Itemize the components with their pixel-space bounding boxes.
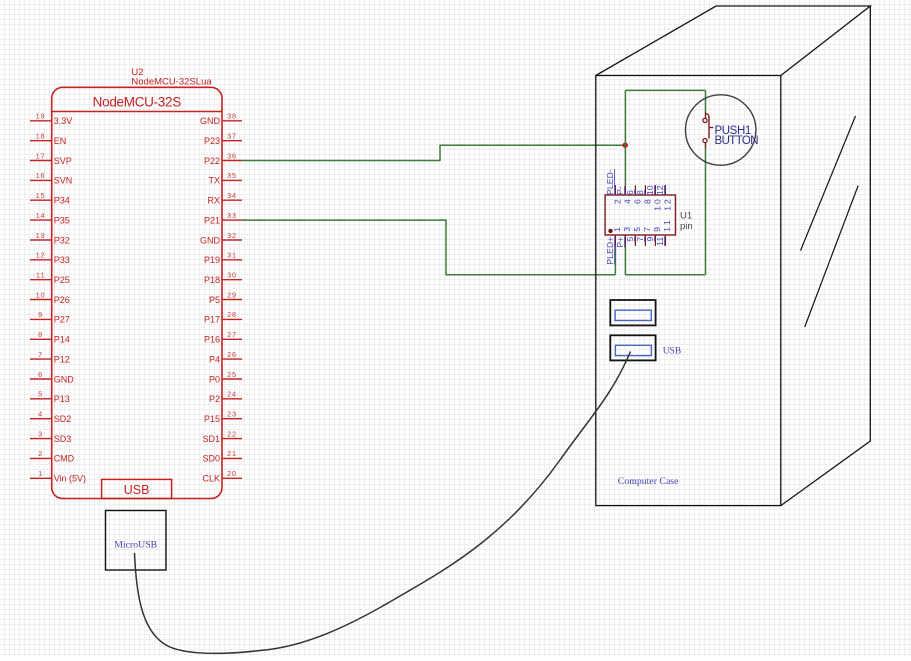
U2 pin 26 (P4) right	[209, 350, 242, 365]
svg-text:P13: P13	[54, 394, 70, 404]
U1 pin 3 stub bottom	[624, 235, 626, 246]
svg-text:12: 12	[662, 199, 672, 211]
svg-text:1: 1	[612, 227, 622, 232]
svg-text:3: 3	[622, 227, 632, 232]
U2 pin 38 (GND) right	[200, 112, 242, 127]
svg-text:CMD: CMD	[54, 454, 75, 464]
svg-text:27: 27	[227, 330, 237, 339]
svg-text:10: 10	[652, 199, 662, 211]
U2 pin 15 (P34) left	[30, 191, 70, 206]
U2 pin 12 (P33) left	[30, 251, 70, 266]
case shine line 2	[805, 186, 859, 328]
svg-text:P23: P23	[204, 136, 220, 146]
svg-text:18: 18	[36, 132, 46, 141]
svg-text:11: 11	[36, 271, 45, 280]
U2 pin 35 (TX) right	[208, 171, 242, 186]
svg-text:P18: P18	[204, 275, 220, 285]
svg-text:11: 11	[655, 236, 665, 245]
U2 pin 33 (P21) right	[204, 211, 242, 226]
push button labels PUSH1 BUTTON	[715, 125, 759, 147]
svg-text:P25: P25	[54, 275, 70, 285]
U2 pin 20 (CLK) right	[202, 469, 242, 484]
svg-text:RX: RX	[207, 196, 220, 206]
svg-text:P+: P+	[615, 237, 625, 248]
svg-text:8: 8	[38, 330, 43, 339]
U1 pin 12 stub top	[664, 185, 666, 195]
wire P- net: top horizontal to push button	[625, 89, 705, 91]
svg-text:12: 12	[655, 185, 665, 195]
wire to push button top	[705, 90, 707, 112]
U2 pin 30 (P18) right	[204, 271, 242, 286]
svg-text:PLED-: PLED-	[605, 169, 615, 195]
svg-text:9: 9	[38, 310, 43, 319]
svg-text:22: 22	[227, 429, 237, 438]
svg-text:29: 29	[227, 290, 237, 299]
U2 pin 21 (SD0) right	[202, 449, 242, 464]
computer case top face	[596, 6, 871, 76]
svg-text:5: 5	[625, 236, 635, 241]
net label 11	[655, 236, 665, 245]
USB port 1 outer	[610, 300, 655, 325]
U1 pin 11 stub bottom	[664, 235, 666, 246]
USB label	[663, 346, 681, 356]
U2 pin 36 (P22) right	[204, 151, 242, 166]
svg-text:7: 7	[635, 236, 645, 241]
U1 pin 6 stub top	[634, 185, 636, 195]
svg-text:SVN: SVN	[54, 176, 73, 186]
U2 pin 23 (P15) right	[204, 410, 242, 425]
U1 pin 8 stub top	[644, 185, 646, 195]
U2 pin 22 (SD1) right	[202, 429, 242, 444]
IC U2 NodeMCU-32S body	[52, 87, 222, 498]
svg-text:23: 23	[227, 410, 237, 419]
svg-text:21: 21	[227, 449, 237, 458]
U1 pin 4 stub top	[624, 185, 626, 195]
svg-text:P22: P22	[204, 156, 220, 166]
U2 pin 3 (SD3) left	[30, 429, 71, 444]
svg-text:4: 4	[38, 410, 43, 419]
svg-text:USB: USB	[663, 346, 681, 356]
U2 pin 1 (Vin (5V)) left	[30, 469, 86, 484]
svg-text:P33: P33	[54, 255, 70, 265]
U2 pin 9 (P27) left	[30, 310, 70, 325]
svg-text:USB: USB	[124, 483, 150, 497]
svg-text:GND: GND	[54, 374, 74, 384]
USB port 2 inner	[615, 345, 651, 355]
U2 pin 10 (P26) left	[30, 290, 70, 305]
U1 pin number 1	[612, 227, 622, 232]
svg-text:3: 3	[38, 429, 43, 438]
net label PLED+	[605, 237, 615, 265]
U1 pin 1 stub bottom	[614, 235, 616, 246]
U2 pin 13 (P32) left	[30, 231, 70, 246]
svg-text:25: 25	[227, 370, 237, 379]
svg-text:37: 37	[227, 132, 237, 141]
svg-text:34: 34	[227, 191, 237, 200]
junction dot on P- net	[623, 143, 628, 148]
U2 pin 2 (CMD) left	[30, 449, 75, 464]
svg-text:4: 4	[622, 199, 632, 204]
svg-text:MicroUSB: MicroUSB	[114, 540, 157, 551]
svg-text:24: 24	[227, 390, 237, 399]
net label P-	[615, 186, 625, 195]
U2 pin 37 (P23) right	[204, 132, 242, 147]
U1 pin 5 stub bottom	[634, 235, 636, 246]
wire P+ to header pin 3	[624, 246, 626, 275]
Computer Case label	[618, 476, 679, 487]
case shine line 1	[801, 116, 856, 251]
U1 pin number 7	[642, 227, 652, 232]
net label 5	[625, 236, 635, 241]
svg-text:26: 26	[227, 350, 237, 359]
U2 pin 6 (GND) left	[30, 370, 74, 385]
zoom circle around push button	[686, 95, 756, 165]
svg-text:SD1: SD1	[202, 434, 220, 444]
svg-text:13: 13	[36, 231, 46, 240]
svg-text:19: 19	[36, 112, 46, 121]
svg-text:35: 35	[227, 171, 237, 180]
svg-text:Vin (5V): Vin (5V)	[54, 474, 86, 484]
U2 pin 32 (GND) right	[200, 231, 242, 246]
wire P+ net bottom horizontal	[625, 274, 705, 276]
U2 USB connector label box	[102, 479, 172, 498]
svg-text:2: 2	[612, 199, 622, 204]
wire P- net: vertical to header pin 4	[624, 90, 626, 185]
svg-text:P19: P19	[204, 255, 220, 265]
U2 pin 34 (RX) right	[207, 191, 242, 206]
svg-text:pin: pin	[680, 221, 693, 232]
U1 pin number 11	[662, 220, 672, 232]
svg-text:8: 8	[642, 199, 652, 204]
svg-text:10: 10	[36, 290, 46, 299]
U2 pin 29 (P5) right	[209, 290, 242, 305]
U1 pin1 marker dot	[608, 229, 612, 233]
wire PLED+ to header pin 1	[614, 246, 616, 275]
U1 pin number 10	[652, 199, 662, 211]
svg-text:15: 15	[36, 191, 46, 200]
U2 pin 17 (SVP) left	[30, 151, 72, 166]
net label PLED-	[605, 169, 615, 195]
MicroUSB connector box	[106, 511, 167, 571]
svg-text:P12: P12	[54, 354, 70, 364]
svg-text:P4: P4	[209, 354, 220, 364]
wire P22 net: pin 36 to junction	[242, 145, 625, 160]
wire push button bottom to P+ net	[705, 149, 707, 275]
U2 pin 25 (P0) right	[209, 370, 242, 385]
svg-text:P21: P21	[204, 215, 220, 225]
svg-text:P17: P17	[204, 315, 220, 325]
U1 pin 2 stub top	[614, 185, 616, 195]
svg-text:P16: P16	[204, 335, 220, 345]
svg-text:GND: GND	[200, 116, 221, 126]
svg-text:SD0: SD0	[202, 454, 220, 464]
net label 10	[645, 185, 655, 195]
svg-text:P14: P14	[54, 335, 70, 345]
U2 pin 4 (SD2) left	[30, 410, 71, 425]
U1 pin number 12	[662, 199, 672, 211]
U1 pin number 8	[642, 199, 652, 204]
net label 6	[625, 190, 635, 195]
svg-text:CLK: CLK	[202, 474, 220, 484]
svg-text:16: 16	[36, 171, 46, 180]
svg-text:31: 31	[227, 251, 237, 260]
net label P+	[615, 237, 625, 248]
svg-text:Computer Case: Computer Case	[618, 476, 679, 487]
svg-text:20: 20	[227, 469, 237, 478]
svg-text:SVP: SVP	[54, 156, 72, 166]
U2 pin 11 (P25) left	[30, 271, 70, 286]
svg-text:P-: P-	[615, 186, 625, 195]
svg-text:7: 7	[38, 350, 43, 359]
U2 pin 5 (P13) left	[30, 390, 70, 405]
svg-text:30: 30	[227, 271, 237, 280]
U1 pin 7 stub bottom	[644, 235, 646, 246]
U2 pin 24 (P2) right	[209, 390, 242, 405]
svg-text:33: 33	[227, 211, 237, 220]
svg-text:6: 6	[625, 190, 635, 195]
U2 pin 14 (P35) left	[30, 211, 70, 226]
svg-text:36: 36	[227, 151, 237, 160]
U1 pin number 4	[622, 199, 632, 204]
svg-text:BUTTON: BUTTON	[715, 135, 759, 147]
U2 reference designator	[131, 67, 212, 88]
MicroUSB label	[114, 540, 157, 551]
svg-text:7: 7	[642, 227, 652, 232]
U2 pin 19 (3.3V) left	[30, 112, 72, 127]
svg-text:28: 28	[227, 310, 237, 319]
svg-text:P34: P34	[54, 196, 70, 206]
svg-text:TX: TX	[208, 176, 220, 186]
svg-text:SD3: SD3	[54, 434, 72, 444]
U2 pin 28 (P17) right	[204, 310, 242, 325]
U1 pin 9 stub bottom	[654, 235, 656, 246]
USB port 2 outer	[610, 335, 655, 360]
U1 pin number 9	[652, 227, 662, 232]
svg-text:P26: P26	[54, 295, 70, 305]
svg-text:GND: GND	[200, 235, 221, 245]
U1 pin number 5	[632, 227, 642, 232]
svg-text:5: 5	[632, 227, 642, 232]
svg-text:6: 6	[632, 199, 642, 204]
U1 pin number 6	[632, 199, 642, 204]
svg-text:P15: P15	[204, 414, 220, 424]
svg-text:11: 11	[662, 220, 672, 232]
U2 pin 31 (P19) right	[204, 251, 242, 266]
svg-text:3.3V: 3.3V	[54, 116, 73, 126]
svg-text:2: 2	[38, 449, 43, 458]
USB cable wire MicroUSB to case USB	[135, 352, 631, 654]
svg-text:9: 9	[652, 227, 662, 232]
computer case right face	[781, 6, 871, 506]
U1 pin number 3	[622, 227, 632, 232]
svg-text:8: 8	[635, 190, 645, 195]
svg-text:5: 5	[38, 390, 43, 399]
svg-text:17: 17	[36, 151, 46, 160]
U1 pin 10 stub top	[654, 185, 656, 195]
svg-text:NodeMCU-32SLua: NodeMCU-32SLua	[131, 77, 212, 88]
connector U1 body	[605, 195, 675, 235]
U2 pin 27 (P16) right	[204, 330, 242, 345]
svg-text:P2: P2	[209, 394, 220, 404]
computer case front face	[596, 76, 781, 506]
svg-text:1: 1	[38, 469, 43, 478]
svg-text:14: 14	[36, 211, 46, 220]
net label 12	[655, 185, 665, 195]
svg-text:12: 12	[36, 251, 46, 260]
svg-text:NodeMCU-32S: NodeMCU-32S	[93, 94, 182, 109]
svg-text:10: 10	[645, 185, 655, 195]
U1 reference designator	[680, 211, 693, 232]
net label 9	[645, 236, 655, 241]
svg-text:SD2: SD2	[54, 414, 72, 424]
USB port 1 inner	[615, 310, 651, 320]
U2 pin 16 (SVN) left	[30, 171, 72, 186]
svg-text:P35: P35	[54, 215, 70, 225]
svg-text:32: 32	[227, 231, 237, 240]
svg-text:38: 38	[227, 112, 237, 121]
net label 8	[635, 190, 645, 195]
svg-text:P32: P32	[54, 235, 70, 245]
push button PUSH1 symbol	[703, 113, 713, 149]
U1 pin number 2	[612, 199, 622, 204]
U2 pin 7 (P12) left	[30, 350, 70, 365]
svg-text:P5: P5	[209, 295, 220, 305]
svg-text:EN: EN	[54, 136, 67, 146]
svg-text:P27: P27	[54, 315, 70, 325]
svg-text:9: 9	[645, 236, 655, 241]
svg-text:6: 6	[38, 370, 43, 379]
net label 7	[635, 236, 645, 241]
svg-text:P0: P0	[209, 374, 220, 384]
svg-text:PLED+: PLED+	[605, 237, 615, 265]
U2 pin 18 (EN) left	[30, 132, 66, 147]
U2 pin 8 (P14) left	[30, 330, 70, 345]
wire P21 net: pin 33 to PLED+	[242, 220, 615, 275]
